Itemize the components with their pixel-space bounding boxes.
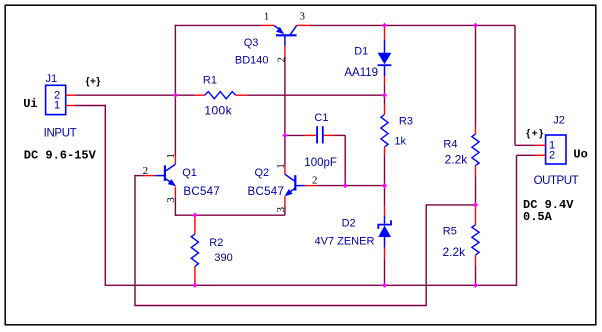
wire horizontal to R4/R5 junction xyxy=(426,204,476,206)
svg-text:2: 2 xyxy=(312,175,318,187)
svg-text:Q3: Q3 xyxy=(244,37,259,49)
svg-text:Q1: Q1 xyxy=(182,167,197,179)
svg-text:Ui: Ui xyxy=(23,97,37,111)
junction left rail / R1 node xyxy=(173,93,178,98)
svg-text:D2: D2 xyxy=(342,218,356,230)
junction emitter rail / R2 top xyxy=(192,213,197,218)
svg-text:2.2k: 2.2k xyxy=(443,245,467,259)
resistor R1 xyxy=(195,94,205,96)
junction C1 right / Q2 base wire xyxy=(343,183,348,188)
wire Q1 emitter down to emitter rail xyxy=(174,197,176,215)
svg-text:BD140: BD140 xyxy=(235,55,269,67)
svg-text:J2: J2 xyxy=(553,114,565,126)
wire R3 bottom to Q2 base node xyxy=(384,155,386,186)
wire J2 pin 2 down to bottom rail xyxy=(516,155,518,286)
svg-text:1: 1 xyxy=(275,163,287,169)
wire C1 right vertical down to Q2 base wire xyxy=(344,135,346,185)
svg-text:INPUT: INPUT xyxy=(44,127,77,139)
svg-text:R5: R5 xyxy=(443,226,457,238)
svg-text:BC547: BC547 xyxy=(248,186,285,198)
wire vertical from J1 pin 1 down to bottom rail xyxy=(104,105,106,285)
junction R3 / D2 / Q2 base node xyxy=(382,183,387,188)
svg-text:3: 3 xyxy=(275,207,287,213)
wire R5 bottom to bottom rail xyxy=(475,266,477,285)
svg-text:BC547: BC547 xyxy=(183,186,220,198)
wire node to R3 top xyxy=(384,95,386,104)
svg-text:2: 2 xyxy=(143,165,149,177)
wire C1 node down to Q2 collector xyxy=(284,135,286,164)
svg-text:4V7 ZENER: 4V7 ZENER xyxy=(315,236,375,248)
svg-text:1: 1 xyxy=(54,100,60,112)
wire into J2 pin 1 xyxy=(515,144,535,146)
resistor R3 xyxy=(384,105,386,115)
wire left vertical from top rail to Q1 collector xyxy=(174,25,176,155)
transistor Q3 (PNP BD140) xyxy=(261,24,274,26)
svg-text:3: 3 xyxy=(300,11,306,23)
wire D2 anode to bottom rail xyxy=(384,258,386,285)
svg-text:3: 3 xyxy=(165,197,177,203)
transistor Q1 (NPN BC547) xyxy=(174,155,176,164)
svg-text:1k: 1k xyxy=(394,135,406,147)
svg-text:2: 2 xyxy=(549,150,555,162)
wire Q2 emitter down to emitter rail xyxy=(284,206,286,215)
wire vertical feedback to R4/R5 node xyxy=(425,205,427,306)
svg-text:C1: C1 xyxy=(314,112,328,124)
connector J1 xyxy=(46,85,66,114)
svg-text:OUTPUT: OUTPUT xyxy=(534,175,579,187)
svg-text:1: 1 xyxy=(264,11,270,23)
wire from Q1 base going left xyxy=(135,175,145,177)
resistor R2 xyxy=(194,216,196,234)
wire Q2 base to R3/D2 node xyxy=(316,185,385,187)
svg-text:100pF: 100pF xyxy=(304,157,337,169)
wire Q2 base node down to D2 xyxy=(384,186,386,206)
wire D1 cathode to node xyxy=(384,85,386,95)
wire top rail right segment xyxy=(310,24,515,26)
diode D1 (AA119) xyxy=(384,27,386,40)
svg-text:Q2: Q2 xyxy=(255,167,270,179)
wire from R1 to D1/R3 node xyxy=(246,94,384,96)
wire from J1 pin 1 going right xyxy=(75,105,106,107)
wire from J1 pin 2 to R1 xyxy=(75,94,195,96)
connector J2 xyxy=(546,135,566,164)
junction D1 cathode / R1 / R3 node xyxy=(382,93,387,98)
svg-text:{+}: {+} xyxy=(86,77,101,88)
svg-text:R4: R4 xyxy=(443,138,457,150)
junction top rail / R4 xyxy=(473,23,478,28)
svg-text:2: 2 xyxy=(276,57,288,63)
svg-text:R2: R2 xyxy=(209,237,223,249)
svg-text:390: 390 xyxy=(214,252,232,264)
svg-text:AA119: AA119 xyxy=(344,67,378,79)
resistor R5 xyxy=(475,206,477,225)
capacitor C1 xyxy=(305,134,317,136)
transistor Q2 (NPN BC547, mirrored) xyxy=(284,164,286,174)
wire bottom rail xyxy=(105,284,517,286)
svg-text:J1: J1 xyxy=(46,73,58,85)
wire emitter rail Q1-Q2 xyxy=(175,214,285,216)
wire C1 right lead corner xyxy=(334,134,345,136)
junction R4 / R5 / feedback node xyxy=(473,202,478,207)
junction R2 bottom / bottom rail xyxy=(192,283,197,288)
junction top rail / D1 xyxy=(382,23,387,28)
wire top rail down to R4 xyxy=(475,25,477,127)
svg-text:1: 1 xyxy=(165,153,177,159)
junction Q3 base / C1 / Q2 collector node xyxy=(282,133,287,138)
wire R4 bottom to junction xyxy=(475,176,477,205)
wire from J2 pin 2 xyxy=(517,154,535,156)
resistor R4 xyxy=(475,127,477,135)
svg-text:D1: D1 xyxy=(354,46,368,58)
svg-text:DC 9.6-15V: DC 9.6-15V xyxy=(24,149,97,163)
junction R5 / bottom rail xyxy=(473,283,478,288)
svg-text:R3: R3 xyxy=(399,115,413,127)
svg-text:R1: R1 xyxy=(203,74,217,86)
wire top rail left segment xyxy=(175,24,261,26)
wire feedback bottom rail xyxy=(134,305,426,307)
junction D2 / bottom rail xyxy=(382,283,387,288)
svg-text:2.2k: 2.2k xyxy=(445,153,469,167)
svg-text:0.5A: 0.5A xyxy=(523,210,553,224)
wire top rail down to J2 pin 1 xyxy=(514,25,516,145)
svg-text:{+}: {+} xyxy=(526,128,544,139)
svg-text:100k: 100k xyxy=(204,104,232,118)
diode D2 (4V7 zener) xyxy=(384,206,386,217)
wire vertical from Q1 base down to feedback rail xyxy=(134,175,136,306)
wire Q3 base vertical down to C1 node xyxy=(284,55,286,136)
wire C1 left lead to node xyxy=(285,134,305,136)
svg-text:Uo: Uo xyxy=(573,147,587,161)
